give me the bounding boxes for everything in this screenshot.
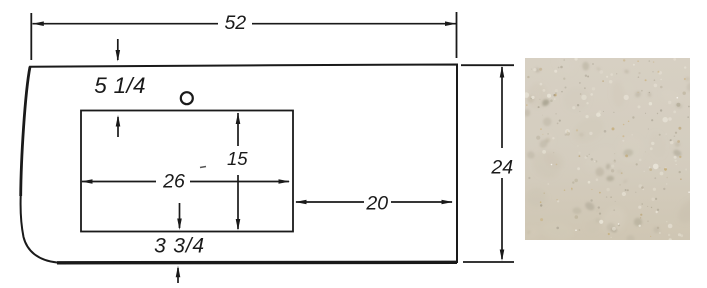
dimension 52: extension line left <box>30 13 32 60</box>
material swatch <box>511 50 705 243</box>
sink cutout rectangle <box>81 111 293 232</box>
svg-text:3 3/4: 3 3/4 <box>154 235 205 258</box>
dimension 3 3/4: upper arrow <box>177 203 182 230</box>
dimension 24: bottom tick <box>463 261 514 263</box>
swatch fine flecks <box>524 57 690 241</box>
svg-text:15: 15 <box>227 148 248 169</box>
svg-text:24: 24 <box>490 157 513 179</box>
svg-text:52: 52 <box>224 12 246 34</box>
dimension 20: horizontal line with arrows <box>295 200 453 205</box>
dimension 24: vertical line with arrows <box>500 66 505 261</box>
stray scan mark <box>200 167 206 168</box>
swatch soft spots <box>523 62 693 243</box>
dimension 5 1/4: lower arrow <box>116 115 121 137</box>
dimension 52: dimension line with arrows <box>32 21 456 26</box>
svg-text:20: 20 <box>365 192 388 214</box>
dimension 15: vertical line with arrows <box>236 113 241 231</box>
faucet hole <box>181 92 193 104</box>
dimension 26: horizontal line with arrows <box>81 179 290 184</box>
dimension 52: extension line right <box>456 12 458 58</box>
dimension 5 1/4: upper arrow <box>116 39 121 62</box>
swatch cloudy mottling <box>511 50 705 243</box>
countertop outline <box>21 65 457 263</box>
dimension 3 3/4: lower arrow <box>176 266 181 283</box>
svg-text:26: 26 <box>162 171 185 193</box>
svg-text:5 1/4: 5 1/4 <box>94 73 146 98</box>
dimension 24: top tick <box>461 64 514 66</box>
